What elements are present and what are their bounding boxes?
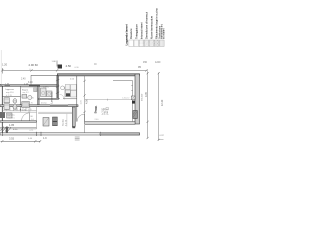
tiny box near labels [106,108,108,110]
svg-text:Intonaci interni: Intonaci interni [139,22,143,39]
bathtub [22,102,30,108]
legend swatch 2 [134,40,139,47]
svg-text:mq 5.2: mq 5.2 [23,92,30,94]
svg-text:2.40: 2.40 [21,78,26,80]
vertical dimension line x84.6 [84,76,86,122]
legend swatch 1 [129,40,134,47]
tick x84.6 a [84,80,86,82]
svg-text:Ingresso: Ingresso [6,88,15,91]
bottom dim tick b [34,140,36,143]
kitchen divider x64.8 [64,87,66,100]
bottom porch band [0,133,140,135]
step mark below band [75,137,80,140]
small room divider x26 [25,107,27,111]
wall x20.5 bathroom [20,86,22,111]
left edge wall ticks [0,84,3,87]
legend swatch 4 [144,40,149,47]
svg-text:90x150: 90x150 [142,93,144,101]
second wall face line [21,87,38,89]
svg-text:60x60: 60x60 [43,87,50,89]
svg-text:mq 12.5: mq 12.5 [8,117,16,119]
svg-text:Camera: Camera [7,114,15,117]
big room mid line [85,99,135,101]
svg-text:450: 450 [143,61,148,64]
svg-text:Rasature: Rasature [129,28,133,39]
wardrobe grey box [7,113,13,118]
door arc bottom-left wing [22,113,30,121]
furniture hatched box [43,118,49,127]
door arc big room [77,114,85,122]
svg-text:pav. 1: pav. 1 [107,108,109,115]
svg-text:Lavanderia: Lavanderia [51,91,54,103]
building top wall thin west segment [31,74,57,76]
dark hatch segment wall y105 [50,105,68,107]
svg-text:4.50: 4.50 [85,99,88,104]
inner wall dashes [131,85,132,87]
big room bottom wall [85,122,135,125]
dark piece next to stairs [6,127,8,133]
tick x147.6 bottom [147,137,149,139]
dim line mid tick [56,69,58,72]
left edge tick [1,68,3,74]
svg-text:1240: 1240 [155,61,161,64]
svg-text:ed esterni: ed esterni [163,28,166,39]
wall y96.6 [2,96,20,98]
door leaf [29,113,31,121]
svg-text:Demolizione di tramezzi: Demolizione di tramezzi [145,11,149,39]
washing room box 1 [41,88,47,97]
legend swatch 6 [154,40,159,47]
stairs hatch bottom-left [1,127,12,132]
bottom-left wing right wall x72-75 [72,107,75,127]
svg-text:1.9: 1.9 [43,136,47,140]
dark fixture on right wall [132,101,135,104]
svg-text:Nuove tramezzature: Nuove tramezzature [150,15,154,39]
dark wall segment y85 mid [29,84,40,86]
bottom dimension line [1,140,41,142]
column block on right wall [133,111,138,119]
top small ticks near right dim lines [147,70,149,73]
inner niche horizontal line [113,80,133,82]
hatched door gap in wall y85 [5,84,11,87]
kitchen circle [61,86,65,90]
svg-text:1.20x2.2: 1.20x2.2 [122,98,129,100]
closet dividers [7,107,31,111]
svg-text:h 2.70: h 2.70 [66,119,68,126]
svg-text:disimp.: disimp. [41,103,48,105]
svg-text:1.20: 1.20 [2,63,8,67]
svg-text:3.55: 3.55 [9,137,15,141]
kitchen box d [71,91,77,98]
legend swatch 5 [149,40,154,47]
separating wall x76.8 [76,76,78,122]
legend swatch 3 [139,40,144,47]
washing room box 2 [47,91,53,97]
svg-text:0: 0 [30,69,31,71]
svg-text:mq 4.10: mq 4.10 [6,92,14,94]
dim line tick x31.5 [30,69,32,72]
kitchen box a [65,85,70,90]
inner niche vertical line [132,81,134,122]
loggia west wall [30,75,32,84]
svg-text:Cucina: Cucina [63,118,65,126]
right wall [135,74,140,124]
dark block left edge [0,112,5,118]
bottom porch band grey part [100,133,140,135]
wall cap [72,127,75,129]
svg-text:3.10: 3.10 [28,82,33,84]
small room divider x13.5 [13,107,15,111]
kitchen box c [65,90,70,97]
kitchen dark blob [66,93,70,96]
ticks on bathroom divider [20,104,21,106]
thin wall line y112.2 [2,111,36,113]
basin rect 2 [4,104,10,110]
mid line tick [107,99,109,101]
thick wall x57.6 [57,76,59,99]
page fold faint line [0,50,2,133]
bottom dim tick c [39,140,41,143]
wall x36.5 [36,107,38,129]
bottom dim tick a [1,140,3,143]
top dark blob [58,65,62,69]
window mark on right wall [131,96,135,100]
building top wall thick segment [57,74,139,76]
bath circle [28,95,32,99]
tick x158.7 bottom [158,139,160,141]
divider x66.9 [66,114,68,127]
svg-text:4.35: 4.35 [145,92,148,97]
svg-text:4.50: 4.50 [66,64,72,68]
dim line right tick [145,69,147,72]
svg-text:Bagno: Bagno [22,90,29,92]
thick wall tick hatches [56,79,59,93]
furniture dark boxes [53,117,58,121]
door leaf big room [84,114,86,122]
basin rect 1 [4,98,10,103]
tick x147.6 top [147,72,149,74]
wc ellipse 1 [13,99,17,104]
svg-text:2.90 60: 2.90 60 [29,63,39,67]
band tick mid [35,132,37,136]
wc ellipse 2 [13,105,17,110]
svg-text:1.05: 1.05 [9,123,15,127]
dim line left tick [1,69,3,72]
top tick x57 [56,61,58,67]
svg-text:h 2.70: h 2.70 [6,95,13,97]
svg-text:Legenda lavori: Legenda lavori [124,24,128,45]
kitchen box b [71,85,77,91]
band tick mid2 [40,132,42,136]
svg-text:12.40: 12.40 [161,99,164,106]
tick x84.6 b [84,94,86,96]
wall y85 horizontal [0,85,58,87]
wall y121 bottom-left [0,121,37,122]
small dark rect near right wall [34,88,37,92]
left outer wall [1,85,3,133]
legend swatch 7 [160,40,165,47]
bath fixture rect [22,95,27,99]
tick x84.6 c [84,111,86,113]
wall x38.2 vertical [38,86,40,106]
long wall y105 [0,105,78,107]
corridor wall y112-113.5 [38,111,72,113]
tick x147.6 mid [147,121,149,123]
far right dimension line x158.7 [158,73,160,141]
bottom right tick [158,139,164,141]
small room line y110.8 [2,110,36,112]
right dimension line x147.6 [147,73,149,139]
vertical line x84.6 lower [84,125,86,133]
wall y98.8 [38,98,58,99]
svg-text:0.75: 0.75 [30,130,34,132]
tick x158.7 top [158,72,160,74]
band crossing tick [99,132,101,136]
svg-text:Tinteggiature: Tinteggiature [134,24,138,39]
svg-text:Sogg.: Sogg. [94,105,98,113]
band tick left [1,132,3,136]
main horizontal dimension line [2,69,146,71]
lines y127-129 [0,126,37,128]
